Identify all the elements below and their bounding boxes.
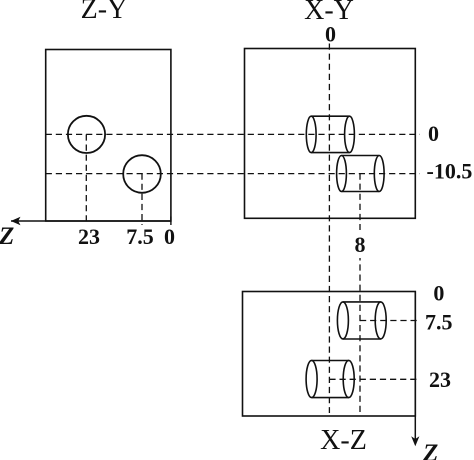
wire: vertical dashed centerline x=329 (long, X-Y to X-Z view)	[328, 44, 330, 414]
X-Y view outline (top right rectangle)	[245, 49, 416, 219]
cylinder hole A (X-Z view): body lines	[343, 301, 381, 303]
cylinder hole 2 (X-Y view): end ellipses	[337, 156, 347, 192]
svg-text:0: 0	[164, 224, 175, 249]
svg-text:Z: Z	[422, 440, 438, 460]
svg-text:7.5: 7.5	[126, 224, 154, 249]
cylinder hole B (X-Z view): end ellipses	[306, 360, 317, 397]
cylinder hole A (X-Z view): end ellipses	[337, 302, 348, 339]
svg-text:0: 0	[325, 22, 336, 47]
wire: horizontal dashed line from hole A center to Z axis (7.5)	[360, 320, 420, 322]
wire: vertical dashed line x=360 (hole 2 axis down to X-Z view)	[359, 174, 361, 414]
cylinder hole 1 (X-Y view): body lines	[311, 115, 349, 117]
svg-text:23: 23	[429, 367, 451, 392]
svg-text:0: 0	[428, 121, 439, 146]
circle hole 1 (Z-Y view)	[68, 116, 105, 153]
svg-text:8: 8	[355, 232, 366, 257]
wire: horizontal dashed projection line y=174 (hole 2 axis)	[46, 173, 420, 175]
tick at 0 on left Z axis	[170, 217, 172, 226]
svg-text:X-Z: X-Z	[320, 425, 367, 456]
cylinder hole 1 (X-Y view): end ellipses	[306, 116, 316, 152]
Z axis (left view, pointing left)	[11, 220, 171, 222]
wire: horizontal dashed line from hole B center to Z axis (23)	[329, 378, 419, 380]
wire: horizontal dashed projection line y=134 (hole 1 axis)	[46, 133, 420, 135]
wire: vertical dashed line from circle 1 center to Z axis	[85, 134, 87, 225]
svg-text:-10.5: -10.5	[427, 159, 473, 184]
wire: vertical dashed line from circle 2 center to Z axis	[141, 174, 143, 225]
svg-text:23: 23	[78, 224, 100, 249]
svg-text:0: 0	[433, 281, 444, 306]
Z axis (right, pointing down)	[414, 292, 416, 442]
X-Z view outline (bottom right rectangle)	[243, 292, 416, 417]
svg-text:7.5: 7.5	[425, 310, 453, 335]
Z-Y view outline (left rectangle)	[46, 50, 171, 222]
label 8 (between views, with white backing over dashed line)	[352, 230, 368, 258]
cylinder hole 2 (X-Y view): body lines	[342, 155, 380, 157]
circle hole 2 (Z-Y view)	[123, 155, 161, 193]
svg-text:Z: Z	[0, 223, 14, 250]
cylinder hole B (X-Z view): body lines	[312, 360, 349, 362]
svg-text:Z-Y: Z-Y	[81, 0, 128, 25]
